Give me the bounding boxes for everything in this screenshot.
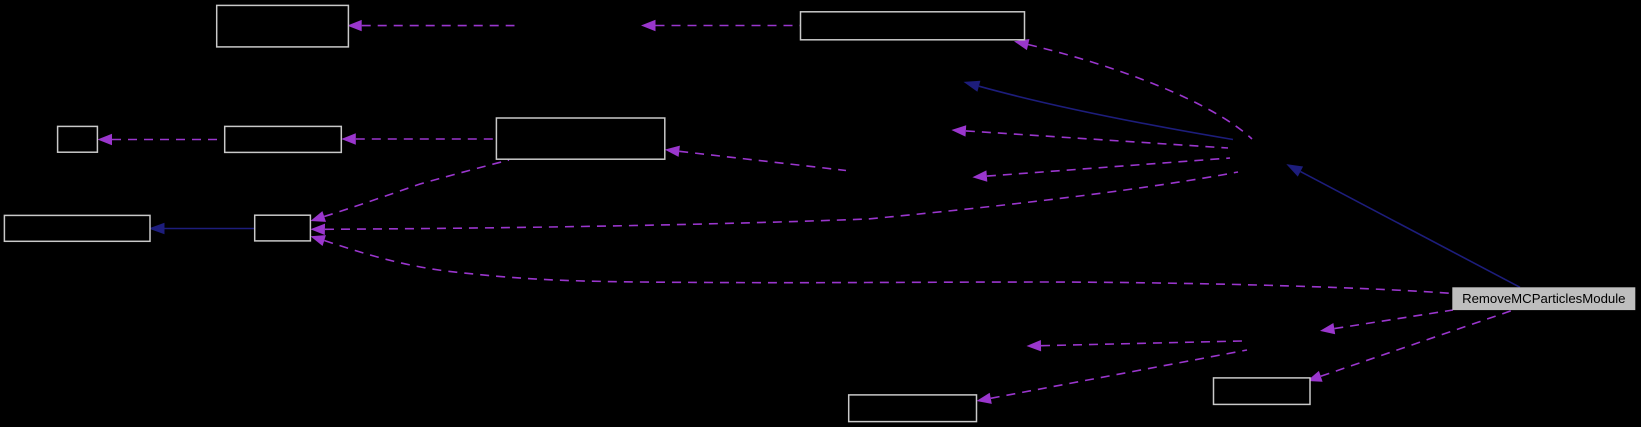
wire: dashed edge from hub to hidden node (y=130) bbox=[951, 125, 1228, 148]
node: box E (two-line label hidden) bbox=[496, 118, 664, 159]
wire: solid inheritance edge box G to box F bbox=[149, 223, 255, 234]
wire: dashed edge box E bottom-left to box G (upper) bbox=[310, 160, 509, 222]
node: box D bbox=[225, 126, 342, 152]
wire: solid inheritance edge hub to hidden node (top) bbox=[964, 81, 1234, 140]
wire: dashed edge RemoveMCParticlesModule to box J bbox=[1307, 311, 1512, 382]
wire: solid inheritance edge RemoveMCParticlesModule to hub bbox=[1286, 164, 1520, 287]
node: box F (bottom-left) bbox=[4, 215, 150, 241]
wire: dashed curve from hub up to box B bottom-right bbox=[1014, 39, 1252, 139]
wire: long dashed curve RemoveMCParticlesModule to box G (lower) bbox=[310, 235, 1452, 293]
node: box J (bottom-right) bbox=[1214, 378, 1311, 405]
wire: dashed edge from hidden node into box E right side bbox=[665, 146, 846, 171]
node: RemoveMCParticlesModule (current class, filled) bbox=[1452, 287, 1635, 310]
node: box C (small, left) bbox=[58, 126, 98, 152]
wire: long dashed curve from hub to box G (middle) bbox=[310, 172, 1238, 235]
node: box A (top-left, two-line label hidden) bbox=[217, 5, 349, 47]
wire: dashed edge box D to box C bbox=[98, 134, 226, 145]
wire: dashed edge from hub to hidden node (y=177) bbox=[972, 158, 1230, 182]
wire: dashed edge into box A bbox=[347, 20, 514, 31]
wire: dashed edge hidden node to hidden node (y=346) bbox=[1027, 340, 1243, 351]
svg-text:RemoveMCParticlesModule: RemoveMCParticlesModule bbox=[1462, 291, 1625, 306]
node: box B (top-middle) bbox=[801, 12, 1025, 40]
node: box G (small) bbox=[255, 215, 311, 241]
wire: dashed edge box E to box D bbox=[341, 133, 496, 144]
wire: dashed edge RemoveMCParticlesModule to hidden node (y=331) bbox=[1320, 310, 1453, 334]
node: box I (bottom-middle) bbox=[849, 395, 977, 422]
wire: dashed edge hidden node to box I bbox=[977, 350, 1248, 404]
wire: dashed edge into hidden node left of box B (top row) bbox=[641, 20, 802, 31]
